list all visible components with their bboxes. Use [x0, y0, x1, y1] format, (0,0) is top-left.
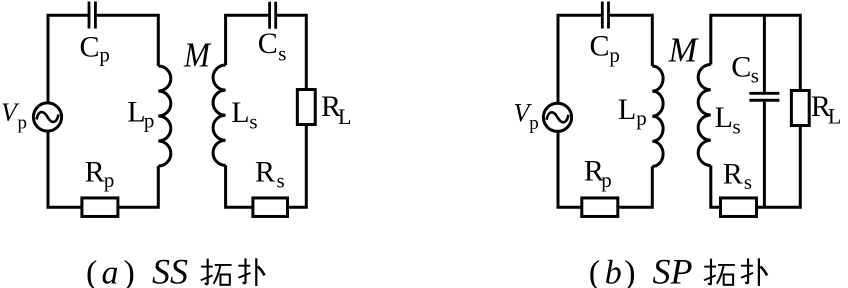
svg-text:M: M	[183, 36, 212, 75]
svg-text:L: L	[828, 104, 841, 129]
svg-text:R: R	[723, 158, 743, 191]
svg-text:p: p	[144, 108, 155, 132]
svg-text:p: p	[104, 168, 115, 192]
svg-text:C: C	[731, 50, 751, 83]
svg-text:(: (	[86, 255, 97, 288]
svg-text:p: p	[529, 113, 539, 134]
svg-text:SP: SP	[653, 252, 693, 288]
svg-text:p: p	[18, 112, 28, 133]
svg-text:M: M	[668, 31, 700, 69]
svg-text:L: L	[715, 101, 733, 134]
svg-text:s: s	[277, 168, 285, 192]
svg-text:R: R	[85, 155, 105, 188]
svg-text:p: p	[601, 168, 612, 192]
svg-text:R: R	[255, 156, 275, 189]
svg-text:s: s	[751, 64, 759, 88]
svg-text:s: s	[249, 110, 257, 134]
svg-text:C: C	[80, 31, 100, 64]
svg-text:L: L	[231, 96, 249, 129]
svg-text:SS: SS	[152, 252, 188, 288]
svg-text:s: s	[744, 170, 752, 194]
svg-text:L: L	[618, 93, 636, 126]
svg-text:C: C	[258, 27, 278, 60]
svg-text:): )	[624, 255, 635, 288]
svg-text:a: a	[102, 255, 119, 288]
svg-text:): )	[124, 255, 135, 288]
svg-text:p: p	[636, 106, 647, 130]
svg-text:(: (	[589, 255, 600, 288]
svg-text:L: L	[127, 95, 145, 128]
svg-text:b: b	[605, 255, 622, 288]
svg-text:s: s	[278, 42, 286, 66]
svg-text:s: s	[733, 115, 741, 139]
svg-text:p: p	[609, 43, 620, 67]
svg-text:L: L	[338, 104, 351, 129]
svg-text:C: C	[590, 30, 610, 63]
svg-text:p: p	[99, 43, 110, 67]
